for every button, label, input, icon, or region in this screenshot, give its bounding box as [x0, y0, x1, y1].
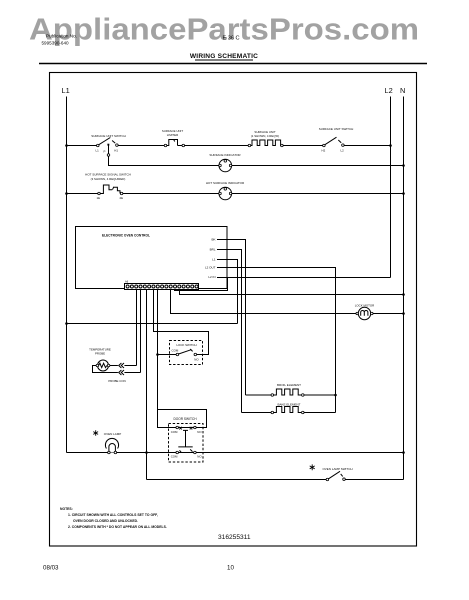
title underline	[195, 59, 253, 61]
motor lock motor left terminal	[356, 312, 359, 315]
wire P drop to indicator rail	[109, 156, 219, 165]
switch hot surface signal left terminal	[98, 192, 101, 195]
door switch bottom contact tick	[190, 449, 192, 451]
oven lamp asterisk	[93, 430, 98, 436]
wire pin to probe right	[136, 290, 138, 366]
svg-text:L1: L1	[96, 148, 100, 152]
wire L2 IN to L2 bus	[217, 277, 391, 279]
svg-text:SURFACE INDICATOR: SURFACE INDICATOR	[209, 153, 241, 157]
wire connector to pin 2	[124, 372, 140, 374]
wire pin to probe left	[140, 290, 142, 373]
motor lock motor	[358, 307, 370, 319]
svg-text:H2: H2	[322, 148, 326, 152]
lamp surface indicator	[219, 159, 232, 172]
wire broil row right	[304, 394, 336, 396]
wire pin to lock motor rail	[171, 290, 357, 314]
switch S2 left terminal	[323, 144, 326, 147]
door switch bottom COM terminal	[176, 451, 179, 454]
page rule line	[39, 63, 427, 65]
door switch top contact ticks	[179, 427, 192, 430]
wire pin to lock COM and door switch	[157, 290, 159, 410]
surface unit element left terminal	[248, 144, 251, 147]
svg-text:NO: NO	[197, 430, 202, 434]
door switch upper box	[158, 410, 207, 428]
wire lamp rail	[67, 452, 404, 454]
svg-text:PROBE: PROBE	[95, 351, 105, 355]
svg-text:BROIL ELEMENT: BROIL ELEMENT	[277, 383, 301, 387]
schematic wires and components	[62, 86, 406, 481]
lamp oven lamp	[105, 438, 118, 448]
wire pin jog to L2 IN	[175, 278, 228, 291]
door switch dashed box	[169, 424, 204, 463]
svg-text:NO: NO	[197, 454, 202, 458]
schematic border frame	[50, 73, 417, 547]
wire rail1 to limiter	[118, 145, 164, 147]
svg-text:316255311: 316255311	[218, 534, 251, 541]
svg-text:HOT SURFACE SIGNAL SWITCH: HOT SURFACE SIGNAL SWITCH	[85, 173, 131, 177]
junction L1 hot rail	[65, 192, 68, 195]
svg-text:SURFACE UNIT SWITCH: SURFACE UNIT SWITCH	[91, 134, 126, 138]
svg-text:2. COMPONENTS WITH * DO NOT: 2. COMPONENTS WITH * DO NOT APPEAR ON AL…	[68, 525, 167, 529]
limiter body	[167, 140, 178, 146]
svg-text:L2 OUT: L2 OUT	[205, 266, 216, 270]
wire N bus vertical	[403, 97, 405, 480]
junction lamp rail N	[402, 451, 405, 454]
switch S1 pivot dot	[107, 144, 109, 146]
junction indicator N	[402, 164, 405, 167]
svg-text:L1: L1	[62, 86, 70, 95]
svg-text:ELECTRONIC OVEN CONTROL: ELECTRONIC OVEN CONTROL	[102, 233, 151, 237]
terminal strip of U1	[125, 284, 199, 290]
svg-text:OVEN LAMP SWITCH: OVEN LAMP SWITCH	[322, 467, 352, 471]
svg-text:H1: H1	[114, 148, 118, 152]
switch S2 blade	[325, 137, 337, 145]
switch S1 contact tick	[112, 141, 115, 144]
svg-text:OVEN DOOR CLOSED AND UNLOCKED.: OVEN DOOR CLOSED AND UNLOCKED.	[73, 519, 138, 523]
junction hot rail N	[402, 192, 405, 195]
svg-text:E 36 C: E 36 C	[223, 36, 240, 42]
electronic oven control U1 box	[76, 227, 228, 289]
switch S1 terminal H1	[116, 144, 119, 147]
svg-text:PROBE CON: PROBE CON	[108, 379, 125, 383]
element bake right terminal	[302, 411, 305, 414]
svg-text:HOT SURFACE INDICATOR: HOT SURFACE INDICATOR	[206, 181, 245, 185]
svg-text:COM: COM	[171, 454, 178, 458]
wire rail1 to L2	[344, 145, 391, 147]
connector probe con bottom	[119, 370, 122, 375]
svg-text:(3 SHOWN, 4 REQUIRED): (3 SHOWN, 4 REQUIRED)	[91, 177, 126, 181]
pins of U1	[126, 285, 129, 288]
svg-text:LOCK SWITCH: LOCK SWITCH	[176, 343, 196, 347]
svg-text:COM: COM	[172, 349, 179, 353]
wire rail1 to element	[184, 145, 248, 147]
limiter left terminal	[164, 144, 167, 147]
wire BK to broil vertical	[217, 240, 246, 396]
svg-text:L2: L2	[385, 86, 393, 95]
svg-text:A6: A6	[125, 280, 129, 284]
svg-text:5995390-640: 5995390-640	[42, 40, 70, 45]
wire broil row left	[246, 394, 272, 396]
switch S1 blade	[99, 138, 111, 145]
door switch top NO terminal	[194, 426, 197, 429]
wire rail1 from L1	[67, 145, 97, 147]
switch hot surface signal body	[100, 185, 112, 194]
switch S2 right terminal	[342, 144, 345, 147]
svg-text:1. CIRCUIT SHOWN WITH ALL CON: 1. CIRCUIT SHOWN WITH ALL CONTROLS SET T…	[68, 513, 158, 517]
wire BRL to bake vertical	[217, 250, 242, 413]
element broil right terminal	[302, 394, 305, 397]
junction L1 bus rail	[65, 322, 68, 325]
wire hot rail to N	[232, 193, 404, 195]
switch oven lamp tick	[341, 474, 343, 477]
lock switch blade	[179, 350, 191, 354]
wire probe left loop	[93, 366, 118, 373]
door switch bottom NO terminal	[194, 451, 197, 454]
svg-text:L2: L2	[341, 148, 345, 152]
svg-text:BK: BK	[211, 238, 215, 242]
wire probe right to connector	[110, 365, 118, 367]
element bake left terminal	[271, 411, 274, 414]
element bake heating element	[273, 407, 301, 413]
svg-text:10: 10	[227, 565, 234, 572]
switch S2 contact tick	[338, 140, 341, 143]
switch hot surface signal right terminal	[120, 192, 123, 195]
svg-text:DOOR SWITCH: DOOR SWITCH	[173, 417, 197, 421]
wire lock motor to N	[373, 313, 404, 315]
svg-text:LIMITER: LIMITER	[167, 133, 178, 137]
lock switch contact tick	[190, 349, 192, 351]
surface unit element right terminal	[281, 144, 284, 147]
svg-text:L1: L1	[212, 258, 216, 262]
wire rail1 to switch2	[283, 145, 323, 147]
door switch top COM terminal	[176, 426, 179, 429]
wire pin to N rail	[180, 290, 404, 295]
door switch link bar	[178, 430, 192, 447]
svg-text:08/03: 08/03	[43, 565, 59, 572]
svg-text:L2 IN: L2 IN	[208, 275, 215, 279]
svg-text:WIRING SCHEMATIC: WIRING SCHEMATIC	[190, 53, 258, 60]
wire oven lamp switch feed	[147, 479, 327, 481]
surface unit heating element	[251, 140, 283, 146]
wire L1 out to L1 rail	[217, 260, 238, 324]
lock switch COM terminal	[176, 353, 179, 356]
junction rail1 L2	[389, 144, 392, 147]
switch oven lamp blade	[329, 471, 341, 479]
svg-text:OVEN LAMP: OVEN LAMP	[104, 432, 122, 436]
wire hot rail to indicator	[123, 193, 219, 195]
svg-text:SURFACE UNIT SWITCH: SURFACE UNIT SWITCH	[319, 127, 354, 131]
lock switch NO terminal	[194, 353, 197, 356]
motor lock motor right terminal	[371, 312, 374, 315]
svg-text:BRL: BRL	[210, 247, 216, 251]
element broil heating element	[273, 389, 301, 395]
svg-text:NO: NO	[194, 358, 199, 362]
resistor temperature probe	[98, 360, 109, 371]
switch S1 terminal P	[108, 146, 110, 154]
svg-text:P: P	[104, 149, 106, 153]
svg-text:2E: 2E	[120, 196, 124, 200]
wire L1 bus vertical	[66, 97, 68, 453]
wire bake row right	[304, 412, 336, 414]
element broil left terminal	[271, 394, 274, 397]
wire indicator rail to N	[232, 165, 404, 167]
wire L2 OUT to elements vertical	[217, 268, 336, 413]
wire L2 bus vertical	[390, 97, 392, 278]
switch oven lamp left terminal	[326, 478, 329, 481]
svg-text:1E: 1E	[97, 196, 101, 200]
lock switch box	[170, 341, 203, 365]
svg-text:LOCK MOTOR: LOCK MOTOR	[355, 303, 374, 307]
wire connector to pin	[124, 365, 136, 367]
svg-text:SURFACE UNIT: SURFACE UNIT	[254, 130, 275, 134]
svg-text:COM: COM	[171, 430, 178, 434]
svg-text:NOTES:: NOTES:	[60, 507, 73, 511]
wire pin to lock switch NO return	[154, 290, 209, 355]
switch S1 terminal L1	[97, 144, 100, 147]
limiter right terminal	[178, 145, 183, 147]
wire L1 rail	[67, 323, 238, 325]
wire bake row left	[242, 412, 272, 414]
svg-text:N: N	[400, 86, 405, 95]
wire pin to oven lamp switch	[146, 290, 148, 480]
junction L1 rail1	[65, 144, 68, 147]
switch oven lamp right terminal	[343, 478, 346, 481]
oven lamp switch asterisk	[310, 464, 315, 470]
svg-text:Publication No.: Publication No.	[46, 33, 77, 38]
wire oven lamp switch to N	[345, 479, 403, 481]
lamp hot surface indicator	[219, 187, 232, 200]
wire lock COM feed	[158, 354, 177, 356]
svg-text:(1 SHOWN, 4 REQ'D): (1 SHOWN, 4 REQ'D)	[251, 134, 279, 138]
connector probe con top	[119, 363, 122, 368]
wire hot rail from L1	[67, 193, 99, 195]
